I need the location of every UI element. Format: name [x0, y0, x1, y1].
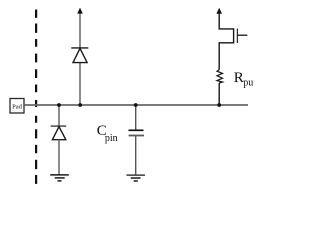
svg-text:pin: pin: [105, 133, 118, 144]
svg-text:Pad: Pad: [12, 104, 23, 111]
svg-text:pu: pu: [243, 77, 253, 88]
